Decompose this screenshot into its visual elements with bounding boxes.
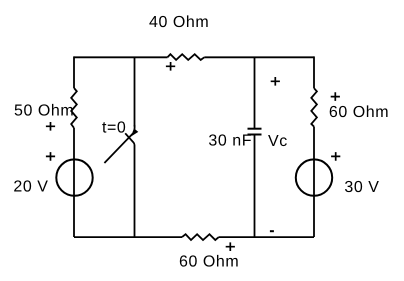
resistor 50 Ohm (left branch) bbox=[71, 88, 77, 128]
wire: left branch through 20V source bbox=[73, 128, 75, 237]
switch bottom contact and wire: middle branch lower bbox=[125, 133, 134, 237]
polarity - at capacitor branch bottom bbox=[270, 230, 274, 232]
polarity + top of capacitor branch bbox=[271, 77, 280, 86]
wire: capacitor branch upper bbox=[254, 57, 256, 128]
polarity + at 20V source bbox=[46, 152, 55, 161]
svg-text:Vc: Vc bbox=[268, 133, 288, 150]
resistor 60 Ohm (right branch) bbox=[311, 88, 317, 126]
switch arrowhead bbox=[131, 129, 138, 137]
polarity + right of bottom 60 Ohm resistor bbox=[226, 242, 235, 251]
voltage source 20 V (circle) bbox=[56, 159, 92, 195]
resistor 60 Ohm (bottom rail) bbox=[182, 234, 219, 240]
polarity + above 60 Ohm right label bbox=[331, 92, 340, 101]
wire: right branch through 30V source bbox=[313, 127, 315, 237]
wire: top rail right segment bbox=[204, 56, 314, 58]
wire: middle branch upper (switch top terminal) bbox=[134, 57, 136, 126]
wire: top rail left segment bbox=[74, 56, 168, 58]
svg-text:40 Ohm: 40 Ohm bbox=[149, 14, 209, 31]
wire: bottom rail left segment bbox=[74, 236, 182, 238]
switch blade bbox=[104, 130, 136, 163]
wire: capacitor branch lower bbox=[254, 135, 256, 238]
svg-text:t=0: t=0 bbox=[102, 120, 126, 137]
svg-text:30 nF: 30 nF bbox=[208, 133, 252, 150]
switch action arrow curve bbox=[133, 125, 134, 133]
wire: bottom rail right segment bbox=[219, 236, 314, 238]
capacitor 30 nF top plate bbox=[248, 128, 262, 130]
wire: right branch top bbox=[313, 56, 315, 88]
svg-text:20 V: 20 V bbox=[13, 179, 48, 196]
wire: left branch top bbox=[73, 56, 75, 88]
polarity + above 20V source (upper) bbox=[46, 122, 55, 131]
polarity + at 30V source bbox=[331, 152, 340, 161]
polarity + left of 40 Ohm resistor bbox=[166, 62, 175, 71]
resistor 40 Ohm (top rail) bbox=[168, 54, 205, 60]
svg-text:50 Ohm: 50 Ohm bbox=[14, 103, 74, 120]
svg-text:60 Ohm: 60 Ohm bbox=[329, 104, 389, 121]
svg-text:30 V: 30 V bbox=[344, 179, 379, 196]
svg-text:60 Ohm: 60 Ohm bbox=[179, 254, 239, 271]
capacitor 30 nF bottom plate bbox=[248, 134, 262, 136]
voltage source 30 V (circle) bbox=[296, 159, 332, 195]
